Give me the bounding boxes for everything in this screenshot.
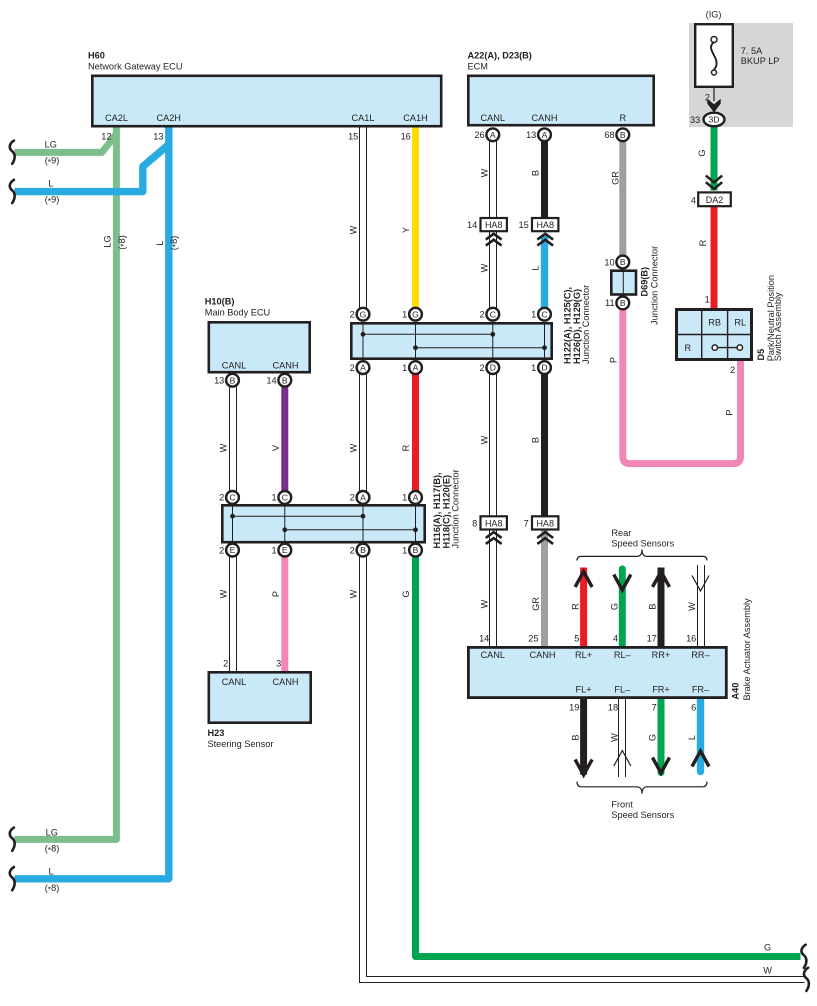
svg-text:CANL: CANL [481,113,506,123]
ECU H60 Network Gateway ECU box [92,76,441,126]
svg-text:A: A [413,493,419,503]
svg-text:G: G [609,603,619,610]
svg-text:P: P [608,357,618,363]
wire L from HA8 15 to junction 1C [541,236,548,308]
ECU H10(B) Main Body ECU box [209,322,310,372]
svg-text:(*8): (*8) [45,844,60,856]
junction connector H116(A) H117(B) H118(C) H120(E) box [222,505,424,542]
svg-text:2: 2 [350,363,355,373]
svg-text:HA8: HA8 [485,518,503,528]
svg-text:16: 16 [401,131,411,141]
arrow down RL- [614,575,631,591]
svg-text:Main Body ECU: Main Body ECU [205,308,270,318]
pin 2 B junction H116 [357,544,370,557]
wire G rear speed sensor RL- pin 4 [619,569,626,648]
svg-text:11: 11 [605,298,615,308]
arrow up FR- [692,751,709,767]
break symbol L top-left [10,180,15,203]
wire L vertical from H60 CA2H pin 13 to bottom-left exit [15,126,169,879]
svg-text:(*9): (*9) [45,156,60,168]
svg-text:C: C [229,493,235,503]
svg-text:12: 12 [101,131,111,141]
svg-text:B: B [620,257,626,267]
wire G fuse to DA2 connector [711,126,718,191]
svg-text:CANL: CANL [222,677,247,687]
svg-text:RL+: RL+ [575,650,592,660]
arrow down FL+ [575,760,592,776]
svg-text:H60: H60 [88,51,105,61]
svg-text:(*8): (*8) [169,236,181,251]
brace front speed sensors [577,782,707,794]
svg-text:BKUP LP: BKUP LP [741,56,780,66]
wire W from junction 2A to junction 2A lower [359,374,361,492]
pin 26 A ECM CANL [486,128,499,141]
svg-text:(*8): (*8) [117,235,129,250]
pin 2 E junction H116 [226,544,239,557]
svg-text:15: 15 [348,131,358,141]
svg-text:L: L [48,867,53,877]
svg-text:2: 2 [219,493,224,503]
svg-text:G: G [412,309,419,319]
svg-text:19: 19 [569,702,579,712]
svg-text:(IG): (IG) [706,10,722,20]
svg-text:C: C [282,493,288,503]
svg-text:W: W [479,168,489,177]
pin 10 B junction D69 [616,256,629,269]
svg-text:D: D [541,363,547,373]
wire R from DA2 connector to D5 pin 1 [711,207,718,310]
svg-text:G: G [764,943,771,953]
wire W from junction 2B to bottom-right exit [360,556,805,982]
pin 1 C junction H122 [538,308,551,321]
svg-text:10: 10 [604,257,614,267]
svg-text:HA8: HA8 [485,220,503,230]
svg-text:2: 2 [479,310,484,320]
svg-text:FL–: FL– [614,685,631,695]
svg-text:14: 14 [479,633,489,643]
wire W rear speed sensor RR- pin 16 [697,565,699,648]
svg-text:2: 2 [479,363,484,373]
wire W from junction 2D to HA8 8 [489,374,491,517]
svg-text:R: R [619,113,626,123]
svg-text:B: B [620,130,626,140]
break symbol LG top-left [10,141,15,164]
svg-text:L: L [48,179,53,189]
brace rear speed sensors [577,550,707,561]
break symbol LG bottom-left [10,828,15,851]
pin 1 G junction H122 [409,308,422,321]
svg-text:4: 4 [613,633,618,643]
wire P U-shape from D69 pin 11 to D5 pin 2 [623,309,741,463]
svg-text:1: 1 [271,493,276,503]
fuse 7.5A BKUP LP [695,24,733,87]
wire L front speed sensor FR- pin 6 [697,698,704,772]
svg-text:15: 15 [518,220,528,230]
svg-text:D: D [490,363,496,373]
svg-text:L: L [155,240,165,245]
svg-text:13: 13 [214,376,224,386]
wire fuse to connector 3D [713,88,715,102]
svg-text:7: 7 [524,519,529,529]
svg-text:W: W [687,602,697,611]
pin 68 B ECM R [616,128,629,141]
svg-text:CANL: CANL [222,361,247,371]
svg-text:CANL: CANL [481,650,506,660]
svg-text:W: W [609,733,619,742]
svg-text:H10(B): H10(B) [205,297,235,307]
svg-text:RR+: RR+ [652,650,671,660]
svg-text:B: B [648,603,658,609]
svg-text:P: P [271,591,281,597]
break symbol G bottom-right [801,945,806,968]
wire P from junction 1E to H23 CANH pin 3 [281,556,288,672]
svg-text:Y: Y [401,227,411,233]
svg-text:LG: LG [46,827,58,837]
pin 11 B junction D69 [616,297,629,310]
pin 1 C junction H116 [278,491,291,504]
svg-text:DA2: DA2 [706,195,724,205]
svg-text:3: 3 [276,659,281,669]
svg-text:(*8): (*8) [45,883,60,895]
svg-text:RL: RL [734,317,746,327]
svg-text:A40: A40 [731,683,741,700]
svg-text:2: 2 [350,545,355,555]
svg-text:2: 2 [219,545,224,555]
wire B from junction 1D to HA8 7 [541,374,548,517]
wire W front speed sensor FL- pin 18 [618,698,620,777]
pin 1 B junction H116 [409,544,422,557]
svg-text:GR: GR [610,171,620,185]
wire B rear speed sensor RR+ pin 17 [658,568,665,649]
svg-text:13: 13 [153,131,163,141]
svg-text:W: W [349,225,359,234]
ECU ECM box A22(A) D23(B) [468,76,653,125]
pin 1 D junction H122 [538,361,551,374]
wire W from junction 2E to H23 CANL pin 2 [229,556,231,672]
svg-text:Junction Connector: Junction Connector [451,469,461,548]
A40 Brake Actuator Assembly box [468,647,726,697]
svg-text:R: R [684,343,691,353]
svg-text:1: 1 [271,545,276,555]
pin 1 E junction H116 [278,544,291,557]
svg-text:W: W [218,443,228,452]
svg-text:R: R [571,603,581,610]
svg-text:CA1H: CA1H [403,113,428,123]
svg-text:G: G [648,734,658,741]
svg-text:CANH: CANH [529,650,555,660]
wire W from HA8 8 to A40 CANL pin 14 [489,530,491,649]
wire Y from H60 CA1H pin 16 to junction 1G [412,126,419,308]
svg-text:Steering Sensor: Steering Sensor [208,739,274,749]
connector 4 DA2 [698,192,731,206]
svg-text:RB: RB [708,317,721,327]
wire GR from HA8 7 to A40 CANH pin 25 [541,530,548,649]
pin 13 B H10 CANL [226,374,239,387]
wire B front speed sensor FL+ pin 19 [580,698,587,775]
svg-text:1: 1 [402,310,407,320]
pin 13 A ECM CANH [538,128,551,141]
switch D5 Park/Neutral Position Switch Assembly box [677,310,752,360]
svg-text:B: B [620,298,626,308]
svg-text:CA1L: CA1L [352,113,375,123]
junction connector H122(A) H125(C) H126(D) H129(G) box [351,323,551,358]
svg-text:3D: 3D [709,115,720,125]
pin 1 A junction H122 [409,361,422,374]
svg-text:W: W [763,966,772,976]
wire W from HA8 14 to junction 2C [489,231,491,308]
pin 2 A junction H122 [357,361,370,374]
connector 14 HA8 [481,218,507,231]
svg-text:A: A [360,493,366,503]
svg-text:RL–: RL– [614,650,632,660]
svg-text:W: W [349,443,359,452]
svg-text:Front: Front [611,800,633,810]
arrow up RL+ [575,572,592,588]
junction connector D69(B) box [611,271,636,295]
svg-text:L: L [687,735,697,740]
svg-text:1: 1 [402,493,407,503]
svg-text:26: 26 [474,130,484,140]
svg-text:C: C [490,309,496,319]
svg-text:B: B [282,375,288,385]
break symbol W bottom-right [804,968,809,991]
wire R rear speed sensor RL+ pin 5 [580,568,587,649]
svg-text:Speed Sensors: Speed Sensors [611,539,674,549]
connector 8 HA8 [481,516,507,529]
svg-text:W: W [479,263,489,272]
svg-text:2: 2 [350,310,355,320]
svg-text:Brake Actuator Assembly: Brake Actuator Assembly [742,598,752,701]
svg-text:HA8: HA8 [536,220,554,230]
svg-text:H122(A), H125(C),: H122(A), H125(C), [563,287,573,364]
connector 15 HA8 [532,218,558,231]
svg-text:FL+: FL+ [576,685,592,695]
svg-text:2: 2 [223,659,228,669]
svg-text:68: 68 [604,130,614,140]
svg-text:7: 7 [652,702,657,712]
svg-text:5: 5 [574,633,579,643]
svg-text:25: 25 [528,633,538,643]
pin 1 A junction H116 [409,491,422,504]
svg-text:A: A [413,363,419,373]
arrow up FL- [614,751,631,767]
svg-text:4: 4 [691,195,696,205]
ECU H23 Steering Sensor box [209,672,311,722]
svg-text:1: 1 [531,310,536,320]
svg-text:LG: LG [103,235,113,247]
svg-text:G: G [360,309,367,319]
svg-text:D5: D5 [756,349,766,361]
svg-text:W: W [479,435,489,444]
svg-text:W: W [218,589,228,598]
svg-text:FR+: FR+ [652,685,670,695]
svg-text:Junction Connector: Junction Connector [650,246,660,325]
svg-text:ECM: ECM [468,61,488,71]
svg-text:13: 13 [526,130,536,140]
wire R from junction 1A to junction 1A lower [412,374,419,492]
pin 2 C junction H122 [486,308,499,321]
svg-text:1: 1 [531,363,536,373]
wire W from H60 CA1L pin 15 to junction 2G [359,126,361,308]
svg-text:W: W [479,599,489,608]
pin 2 G junction H122 [357,308,370,321]
wire V from H10 CANH pin 14 to junction 1C lower [281,386,288,491]
svg-text:B: B [571,734,581,740]
svg-text:(*9): (*9) [45,194,60,206]
svg-text:CANH: CANH [272,361,298,371]
svg-text:Junction Connector: Junction Connector [581,285,591,364]
svg-text:A: A [360,363,366,373]
connector 7 HA8 [532,516,558,529]
pin 2 A junction H116 [357,491,370,504]
pin 14 B H10 CANH [278,374,291,387]
svg-text:1: 1 [402,545,407,555]
svg-text:7. 5A: 7. 5A [741,46,763,56]
wire L (*9) stub from left break joining L vertical [15,145,169,192]
IG circuit gray panel [689,23,793,127]
break symbol L bottom-left [10,867,15,890]
svg-text:D69(B): D69(B) [640,267,650,297]
svg-text:CA2H: CA2H [156,113,181,123]
svg-text:B: B [531,170,541,176]
wire LG vertical from H60 CA2L pin 12 to bottom-left exit [15,126,117,839]
svg-text:V: V [271,444,281,451]
svg-text:17: 17 [647,633,657,643]
svg-text:HA8: HA8 [536,518,554,528]
svg-text:FR–: FR– [692,685,710,695]
svg-text:E: E [230,545,236,555]
connector 33 3D oval [704,113,725,127]
svg-text:6: 6 [691,702,696,712]
svg-text:16: 16 [686,633,696,643]
svg-text:H116(A), H117(B),: H116(A), H117(B), [432,472,442,548]
svg-text:H23: H23 [208,728,225,738]
svg-text:A22(A), D23(B): A22(A), D23(B) [468,51,532,61]
pin 2 C junction H116 [226,491,239,504]
svg-text:A: A [542,130,548,140]
wire W from H10 CANL pin 13 to junction 2C lower [229,386,231,491]
svg-text:GR: GR [531,597,541,611]
svg-text:Network Gateway ECU: Network Gateway ECU [88,61,182,71]
svg-text:B: B [413,545,419,555]
svg-text:E: E [282,545,288,555]
svg-text:8: 8 [472,519,477,529]
svg-text:1: 1 [402,363,407,373]
svg-text:LG: LG [45,139,57,149]
svg-text:Speed Sensors: Speed Sensors [611,810,674,820]
svg-text:R: R [698,239,708,246]
svg-text:P: P [724,410,734,416]
svg-text:1: 1 [705,295,710,305]
arrow solid down to 3D [707,99,720,113]
svg-text:G: G [401,590,411,597]
wire LG (*9) stub from left break joining LG vertical [15,134,117,152]
svg-text:C: C [541,309,547,319]
wire B from ECM CANH pin 13 to HA8 15 [541,141,548,218]
wire GR from ECM R pin 68 to D69 pin 10 [619,141,626,256]
svg-text:CANH: CANH [272,677,298,687]
switch contacts D5 [717,347,738,349]
wire W from ECM CANL pin 26 to HA8 14 [489,141,491,218]
svg-text:B: B [531,437,541,443]
arrow double chevron down to DA2 [706,176,722,189]
svg-text:14: 14 [266,376,276,386]
svg-text:L: L [531,265,541,270]
svg-text:B: B [230,375,236,385]
svg-text:A: A [490,130,496,140]
svg-text:2: 2 [350,493,355,503]
svg-text:W: W [349,589,359,598]
svg-text:33: 33 [690,115,700,125]
arrow down RR- [692,576,709,592]
svg-text:B: B [360,545,366,555]
svg-text:CANH: CANH [531,113,557,123]
wire G from junction 1B to bottom-right exit [416,556,801,956]
svg-text:CA2L: CA2L [105,113,128,123]
svg-text:14: 14 [467,220,477,230]
arrow up RR+ [653,572,670,588]
svg-text:G: G [697,149,707,156]
svg-text:R: R [401,444,411,451]
wire G front speed sensor FR+ pin 7 [658,698,665,773]
svg-text:Switch Assembly: Switch Assembly [773,292,783,361]
svg-text:18: 18 [608,702,618,712]
arrow down FR+ [653,758,670,774]
svg-text:Rear: Rear [611,528,631,538]
pin 2 D junction H122 [486,361,499,374]
svg-text:2: 2 [730,365,735,375]
svg-text:RR–: RR– [691,650,710,660]
